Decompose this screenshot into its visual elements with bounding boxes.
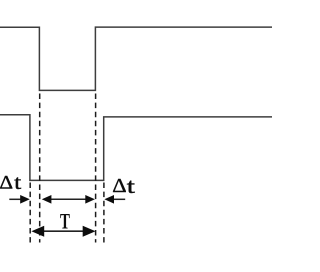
svg-text:t: t — [14, 172, 22, 194]
svg-text:t: t — [127, 174, 135, 198]
waveform W2 (bottom pulse train) — [0, 115, 272, 181]
dashed extension line at W2 falling edge — [29, 183, 31, 243]
svg-text:Δ: Δ — [0, 173, 13, 194]
svg-text:T: T — [60, 208, 70, 233]
middle double-headed arrow between dashed lines — [42, 195, 95, 204]
period T double-headed arrow — [31, 226, 95, 237]
label delta-t (left) — [0, 172, 22, 194]
label delta-t (right) — [112, 174, 135, 198]
dashed extension line at W2 rising edge — [103, 183, 105, 243]
dashed extension line at W1 rising edge — [95, 94, 97, 243]
left delta-t outside arrow — [9, 195, 30, 204]
right delta-t outside arrow — [104, 195, 125, 204]
dashed extension line at W1 falling edge — [39, 94, 41, 243]
waveform W1 (top pulse train) — [0, 27, 272, 90]
svg-text:Δ: Δ — [112, 175, 126, 197]
